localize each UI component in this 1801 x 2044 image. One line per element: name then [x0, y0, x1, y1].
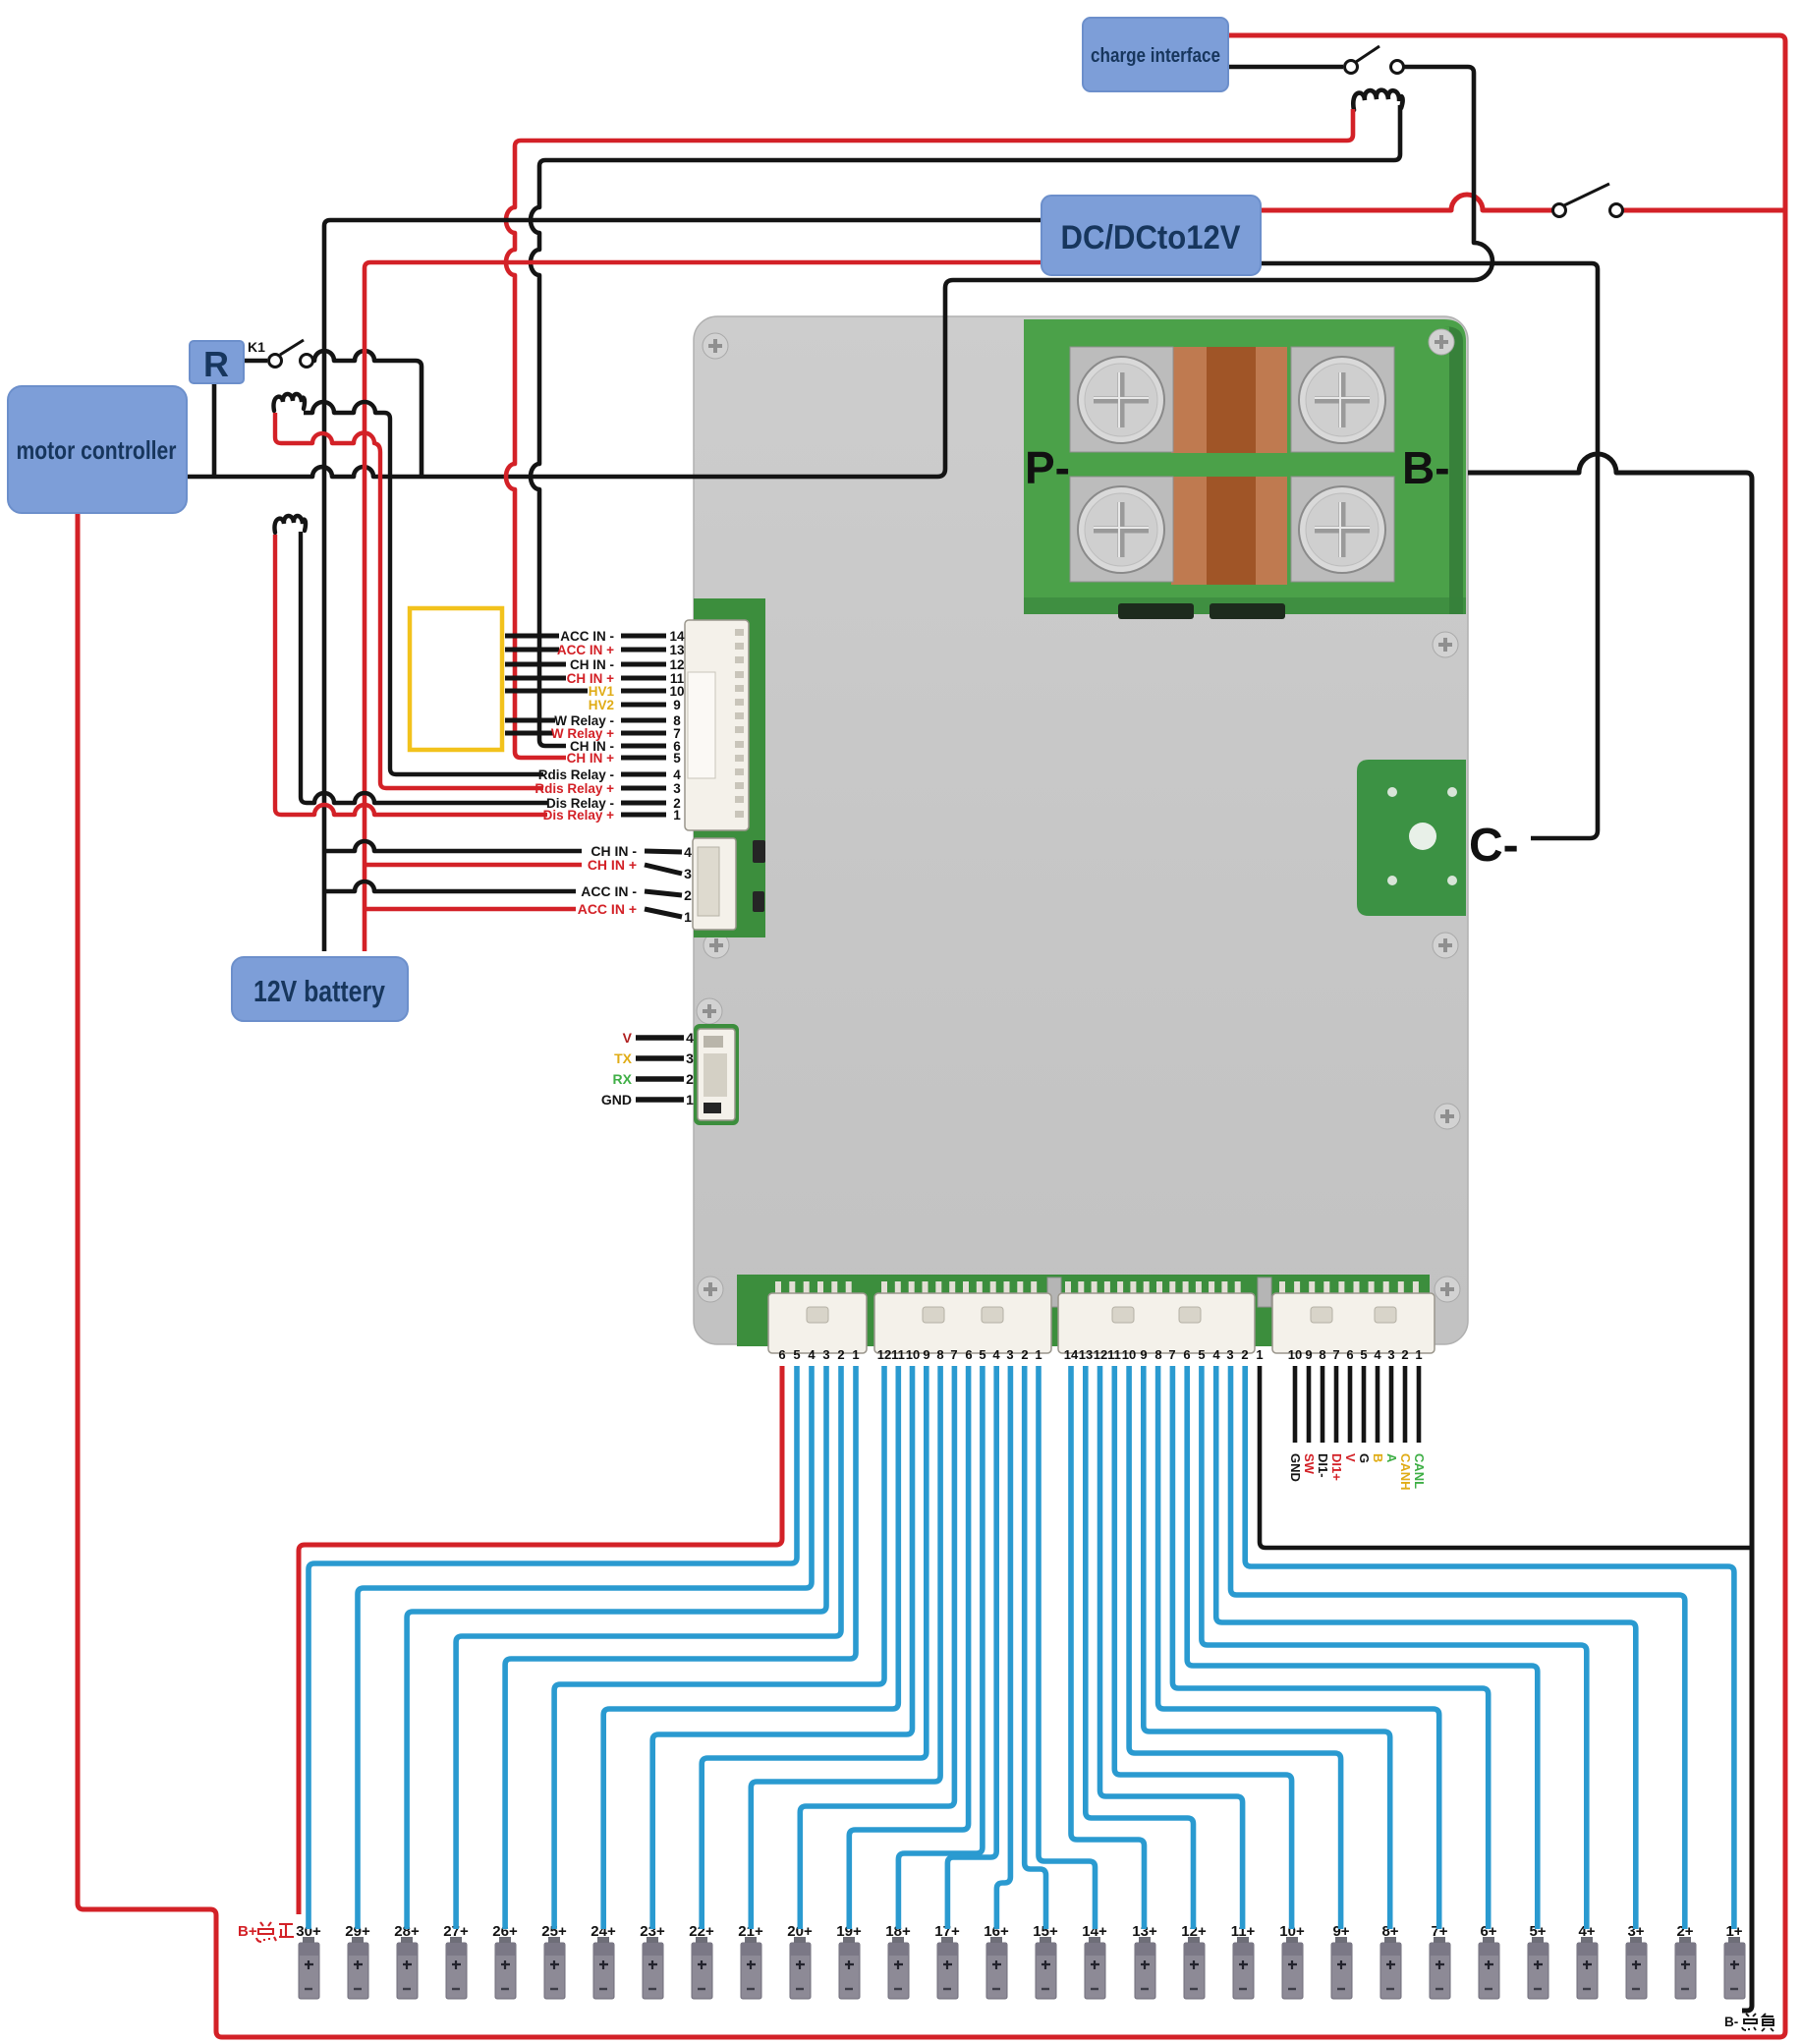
- BMS board body: [694, 316, 1468, 1344]
- balance wire cell 18: [898, 1366, 983, 1929]
- mounting screw 3: [1433, 632, 1458, 657]
- svg-text:6: 6: [778, 1347, 785, 1362]
- svg-text:8: 8: [936, 1347, 943, 1362]
- left connector green patch: [694, 598, 765, 937]
- svg-text:4: 4: [686, 1030, 694, 1046]
- svg-text:1: 1: [673, 808, 681, 823]
- battery cell 23: [640, 1923, 665, 1999]
- svg-text:12: 12: [877, 1347, 891, 1362]
- 14-pin connector body: [685, 620, 749, 830]
- svg-text:RX: RX: [613, 1071, 633, 1087]
- motor controller box: [8, 386, 187, 513]
- switch S1 pole: [1345, 61, 1358, 74]
- battery cell 30: [296, 1923, 321, 1999]
- mounting screw 1: [703, 333, 728, 359]
- balance connector 2 (12p): [874, 1281, 1051, 1353]
- wire B+ sense red: [299, 1366, 782, 1914]
- io pin 3 row CH IN +: [588, 857, 692, 881]
- svg-text:6: 6: [1346, 1347, 1353, 1362]
- balance wire cell 3: [1216, 1366, 1636, 1929]
- mounting screw 5: [1433, 933, 1458, 958]
- smd part 1: [753, 840, 765, 863]
- svg-text:1: 1: [1256, 1347, 1263, 1362]
- mounting screw 7: [1435, 1104, 1460, 1129]
- battery cell 27: [443, 1923, 469, 1999]
- balance wire cell 7: [1158, 1366, 1439, 1929]
- balance wire cell 30: [309, 1366, 797, 1929]
- svg-text:R: R: [203, 344, 229, 384]
- svg-text:Rdis Relay +: Rdis Relay +: [535, 781, 614, 796]
- battery cell 29: [345, 1923, 370, 1999]
- wire B- to pack negative: [1468, 454, 1752, 2011]
- relay contact K1 throw: [301, 355, 313, 368]
- pin 13 row ACC IN +: [505, 643, 685, 657]
- 12V battery box: [232, 957, 408, 1021]
- comm pin 10 wire GND: [1288, 1366, 1303, 1482]
- comm pin 2 wire CANH: [1398, 1366, 1413, 1491]
- balance wire cell 17: [947, 1366, 996, 1929]
- balance wire cell 28: [407, 1366, 826, 1929]
- balance wire cell 6: [1172, 1366, 1488, 1929]
- 4-pin io connector body: [693, 838, 736, 930]
- svg-text:1: 1: [852, 1347, 859, 1362]
- svg-text:10: 10: [1288, 1347, 1302, 1362]
- svg-text:14: 14: [1064, 1347, 1079, 1362]
- battery cell 21: [738, 1923, 763, 1999]
- balance wire cell 12: [1086, 1366, 1194, 1929]
- balance wire cell 16: [996, 1366, 1010, 1929]
- svg-text:CANL: CANL: [1412, 1453, 1427, 1489]
- wire black vertical to CH IN- pin6: [531, 166, 566, 746]
- svg-text:HV1: HV1: [589, 684, 615, 699]
- balance wire cell 24: [603, 1366, 898, 1929]
- wire L2 black lead to Rdis Relay-: [304, 402, 543, 774]
- pin 12 row CH IN -: [505, 657, 685, 672]
- battery cell 28: [394, 1923, 420, 1999]
- svg-text:C-: C-: [1469, 820, 1519, 872]
- battery cell 11: [1231, 1923, 1256, 1999]
- svg-text:4: 4: [1374, 1347, 1381, 1362]
- pin 3 row Rdis Relay +: [535, 781, 681, 796]
- svg-text:5: 5: [673, 751, 681, 766]
- battery cell 19: [836, 1923, 862, 1999]
- pin 1 row Dis Relay +: [543, 808, 682, 823]
- svg-text:B+: B+: [238, 1923, 257, 1940]
- svg-text:1: 1: [686, 1092, 694, 1107]
- svg-text:6: 6: [1183, 1347, 1190, 1362]
- svg-text:3: 3: [673, 781, 681, 796]
- wire DC/DC input black: [324, 220, 1041, 951]
- switch S2 pole: [1553, 204, 1566, 217]
- balance wire cell 25: [554, 1366, 884, 1929]
- battery cell 9: [1331, 1923, 1352, 1999]
- comm pin 1 wire CANL: [1412, 1366, 1427, 1489]
- balance wire cell 5: [1187, 1366, 1538, 1929]
- svg-text:3: 3: [684, 866, 692, 881]
- svg-text:V: V: [623, 1030, 633, 1046]
- comm connector 4 (10p): [1272, 1281, 1435, 1353]
- svg-text:ACC IN +: ACC IN +: [578, 901, 637, 917]
- svg-text:10: 10: [669, 684, 684, 699]
- uart connector green patch: [694, 1024, 739, 1125]
- battery cell 6: [1479, 1923, 1499, 1999]
- wire CH IN- branch: [324, 841, 582, 851]
- wire DC/DC input red: [365, 262, 1041, 951]
- balance wire cell 8: [1144, 1366, 1390, 1929]
- wire DC/DC negative to C-: [1261, 263, 1598, 838]
- svg-text:12: 12: [669, 657, 684, 672]
- svg-text:1: 1: [1415, 1347, 1422, 1362]
- battery cell 3: [1626, 1923, 1647, 1999]
- svg-text:9: 9: [923, 1347, 929, 1362]
- bottom pin numbers: [778, 1347, 1422, 1362]
- svg-text:13: 13: [669, 643, 685, 657]
- balance wire cell 20: [800, 1366, 954, 1929]
- relay R box: [190, 341, 244, 383]
- svg-text:7: 7: [1332, 1347, 1339, 1362]
- inductor L3 coil: [274, 516, 305, 533]
- battery cell 17: [934, 1923, 960, 1999]
- uart pin 1 row GND: [601, 1092, 694, 1107]
- wire L1 black lead: [539, 105, 1400, 166]
- battery cell 5: [1528, 1923, 1548, 1999]
- svg-text:9: 9: [673, 698, 681, 712]
- comm pin 7 wire DI1+: [1329, 1366, 1344, 1481]
- pin 9 row HV2: [589, 698, 681, 712]
- battery cell 18: [885, 1923, 911, 1999]
- balance wire cell 1: [1245, 1366, 1734, 1929]
- mounting screw 9: [1435, 1277, 1460, 1302]
- C- pad: [1357, 760, 1466, 916]
- svg-text:CANH: CANH: [1398, 1453, 1413, 1491]
- balance wire cell 10: [1114, 1366, 1291, 1929]
- battery cell 22: [689, 1923, 714, 1999]
- wire L2 red lead to Rdis Relay+: [275, 413, 543, 788]
- DC/DC converter box: [1041, 196, 1261, 275]
- balance wire cell 2: [1231, 1366, 1685, 1929]
- pin 8 row W Relay -: [505, 713, 681, 728]
- svg-text:4: 4: [1212, 1347, 1220, 1362]
- screw terminal P- bottom: [1070, 477, 1173, 582]
- wire balance pin1 negative: [1260, 1366, 1752, 1548]
- svg-text:GND: GND: [1288, 1453, 1303, 1482]
- screw terminal P- top: [1070, 347, 1173, 452]
- balance connector 3 (14p): [1058, 1281, 1255, 1353]
- svg-text:V: V: [1343, 1453, 1358, 1462]
- svg-text:Dis Relay +: Dis Relay +: [543, 808, 615, 823]
- screw terminal B- bottom: [1291, 477, 1394, 582]
- battery cell 2: [1675, 1923, 1696, 1999]
- svg-text:5: 5: [1360, 1347, 1367, 1362]
- svg-text:14: 14: [669, 629, 685, 644]
- svg-text:Rdis Relay -: Rdis Relay -: [538, 767, 614, 782]
- balance wire cell 29: [358, 1366, 812, 1929]
- svg-text:HV2: HV2: [589, 698, 614, 712]
- battery cell 12: [1181, 1923, 1207, 1999]
- wire CH IN+ branch: [365, 863, 582, 868]
- svg-text:13: 13: [1079, 1347, 1093, 1362]
- svg-text:1: 1: [684, 909, 692, 925]
- svg-text:10: 10: [906, 1347, 920, 1362]
- strip tab 1: [1047, 1277, 1061, 1307]
- svg-text:DC/DCto12V: DC/DCto12V: [1061, 219, 1241, 256]
- comm pin 9 wire SW: [1302, 1366, 1317, 1475]
- wire ACC IN+ branch: [365, 907, 576, 912]
- svg-text:motor controller: motor controller: [17, 435, 177, 465]
- wire red DC/DC to switch: [1261, 195, 1552, 210]
- pin 6 row CH IN -: [570, 739, 681, 754]
- svg-text:ACC IN +: ACC IN +: [557, 643, 614, 657]
- svg-text:8: 8: [1319, 1347, 1325, 1362]
- pin 2 row Dis Relay -: [546, 796, 681, 811]
- svg-text:4: 4: [808, 1347, 816, 1362]
- mosfet slot 2: [1210, 603, 1285, 619]
- comm pin 6 wire V: [1343, 1366, 1358, 1462]
- svg-text:CH IN +: CH IN +: [588, 857, 637, 873]
- wire L3 red lead to Dis Relay+: [275, 535, 547, 815]
- battery cell 26: [492, 1923, 518, 1999]
- mounting screw 4: [704, 933, 729, 958]
- svg-text:5: 5: [979, 1347, 985, 1362]
- svg-text:5: 5: [793, 1347, 800, 1362]
- svg-text:11: 11: [891, 1347, 905, 1362]
- label B- zong fu: [1724, 2014, 1773, 2031]
- comm pin 3 wire A: [1384, 1366, 1399, 1463]
- balance wire cell 26: [505, 1366, 856, 1929]
- smd part 2: [753, 891, 764, 912]
- balance wire cell 23: [652, 1366, 912, 1929]
- svg-text:B-: B-: [1402, 442, 1450, 493]
- switch S1 lever: [1356, 46, 1379, 62]
- svg-text:12V battery: 12V battery: [253, 974, 386, 1008]
- svg-text:2: 2: [684, 887, 692, 903]
- battery cell 24: [591, 1923, 616, 1999]
- balance wire cell 27: [456, 1366, 841, 1929]
- bottom balance strip: [737, 1275, 1430, 1346]
- svg-text:B: B: [1371, 1453, 1385, 1462]
- pin 11 row CH IN +: [505, 671, 685, 686]
- svg-text:4: 4: [673, 767, 681, 782]
- svg-text:CH IN -: CH IN -: [570, 657, 614, 672]
- wire L3 black lead to Dis Relay-: [301, 532, 547, 803]
- svg-text:2: 2: [1021, 1347, 1028, 1362]
- svg-text:6: 6: [965, 1347, 972, 1362]
- mounting screw 8: [698, 1277, 723, 1302]
- wire L1 red lead: [515, 109, 1353, 146]
- comm pin 8 wire DI1-: [1316, 1366, 1330, 1478]
- io pin 2 row ACC IN -: [581, 883, 692, 903]
- svg-text:11: 11: [1107, 1347, 1121, 1362]
- balance wire cell 4: [1202, 1366, 1587, 1929]
- svg-text:9: 9: [1305, 1347, 1312, 1362]
- battery cell 10: [1279, 1923, 1305, 1999]
- svg-text:2: 2: [686, 1071, 694, 1087]
- svg-text:ACC IN -: ACC IN -: [560, 629, 614, 644]
- inductor L2 coil: [273, 394, 304, 411]
- io pin 1 row ACC IN +: [578, 901, 692, 925]
- wire K1 contact to main line: [244, 359, 267, 364]
- screw terminal B- top: [1291, 347, 1394, 452]
- wire ACC IN- branch: [324, 881, 576, 891]
- svg-text:3: 3: [1387, 1347, 1394, 1362]
- switch S2 throw: [1610, 204, 1623, 217]
- svg-text:2: 2: [1241, 1347, 1248, 1362]
- svg-text:7: 7: [1168, 1347, 1175, 1362]
- wire K1 to main line: [313, 351, 422, 477]
- uart connector body: [698, 1029, 735, 1120]
- svg-text:CH IN +: CH IN +: [567, 751, 615, 766]
- balance wire cell 19: [849, 1366, 968, 1929]
- svg-text:3: 3: [1226, 1347, 1233, 1362]
- copper busbar top: [1171, 347, 1287, 453]
- mounting screw 2: [1429, 329, 1454, 355]
- pin 5 row CH IN +: [567, 751, 682, 766]
- svg-text:DI1-: DI1-: [1316, 1453, 1330, 1478]
- svg-text:TX: TX: [614, 1050, 633, 1066]
- svg-text:A: A: [1384, 1453, 1399, 1463]
- uart pin 3 row TX: [614, 1050, 694, 1066]
- label B+ zong zheng: [238, 1922, 294, 1942]
- battery cell 4: [1577, 1923, 1598, 1999]
- svg-text:ACC IN -: ACC IN -: [581, 883, 637, 899]
- balance wire cell 13: [1071, 1366, 1145, 1929]
- svg-text:3: 3: [1006, 1347, 1013, 1362]
- comm pin 4 wire B: [1371, 1366, 1385, 1462]
- battery cell 15: [1033, 1923, 1058, 1999]
- svg-text:12: 12: [1094, 1347, 1107, 1362]
- wire R to main line: [212, 383, 217, 477]
- balance wire cell 9: [1129, 1366, 1341, 1929]
- svg-text:1: 1: [1035, 1347, 1041, 1362]
- pin 4 row Rdis Relay -: [538, 767, 682, 782]
- battery cell 16: [984, 1923, 1009, 1999]
- svg-text:P-: P-: [1025, 442, 1070, 493]
- pin 14 row ACC IN -: [505, 629, 685, 644]
- battery cell 13: [1132, 1923, 1157, 1999]
- svg-text:3: 3: [686, 1050, 694, 1066]
- svg-text:B-: B-: [1724, 2015, 1738, 2029]
- balance wire cell 21: [751, 1366, 940, 1929]
- svg-text:GND: GND: [601, 1092, 632, 1107]
- charge interface box: [1083, 18, 1228, 91]
- uart pin 2 row RX: [613, 1071, 695, 1087]
- svg-text:5: 5: [1198, 1347, 1205, 1362]
- balance wire cell 14: [1039, 1366, 1096, 1929]
- svg-text:4: 4: [992, 1347, 1000, 1362]
- battery cell 20: [787, 1923, 813, 1999]
- svg-text:4: 4: [684, 844, 692, 860]
- svg-text:DI1+: DI1+: [1329, 1453, 1344, 1481]
- wire red switch to rail: [1623, 208, 1785, 213]
- inductor L1: [1353, 90, 1402, 110]
- board green power section: [1024, 319, 1466, 614]
- mosfet slot 1: [1118, 603, 1194, 619]
- uart pin 4 row V: [623, 1030, 694, 1046]
- switch S2 lever: [1564, 184, 1609, 205]
- comm pin 5 wire G: [1357, 1366, 1372, 1463]
- copper busbar bottom: [1171, 477, 1287, 585]
- svg-text:2: 2: [837, 1347, 844, 1362]
- svg-text:G: G: [1357, 1453, 1372, 1463]
- battery cell 25: [541, 1923, 567, 1999]
- battery cell 7: [1430, 1923, 1450, 1999]
- wire motor controller negative to charge switch: [187, 67, 1492, 477]
- wire red vertical to CH IN+ pin5: [506, 146, 566, 758]
- io pin 4 row CH IN -: [591, 843, 692, 860]
- svg-text:10: 10: [1122, 1347, 1136, 1362]
- svg-text:SW: SW: [1302, 1453, 1317, 1475]
- svg-text:9: 9: [1140, 1347, 1147, 1362]
- balance connector 1 (6p): [768, 1281, 867, 1353]
- svg-text:K1: K1: [248, 339, 265, 355]
- battery cell 8: [1380, 1923, 1401, 1999]
- pin 10 row HV1: [505, 684, 685, 699]
- strip tab 2: [1258, 1277, 1271, 1307]
- svg-text:7: 7: [950, 1347, 957, 1362]
- pin 7 row W Relay +: [505, 726, 681, 741]
- wire charge interface negative: [1228, 65, 1343, 70]
- svg-text:charge interface: charge interface: [1091, 45, 1220, 67]
- svg-text:3: 3: [822, 1347, 829, 1362]
- switch S1 throw: [1391, 61, 1404, 74]
- svg-text:8: 8: [1154, 1347, 1161, 1362]
- relay contact K1 pole: [269, 355, 282, 368]
- battery cell 14: [1082, 1923, 1107, 1999]
- opto-isolator box: [410, 608, 502, 750]
- mounting screw 6: [697, 998, 722, 1024]
- balance wire cell 15: [1025, 1366, 1046, 1929]
- balance wire cell 11: [1100, 1366, 1243, 1929]
- battery cell 1: [1724, 1923, 1745, 1999]
- relay contact K1 lever: [280, 340, 304, 355]
- svg-text:2: 2: [1401, 1347, 1408, 1362]
- balance wire cell 22: [702, 1366, 927, 1929]
